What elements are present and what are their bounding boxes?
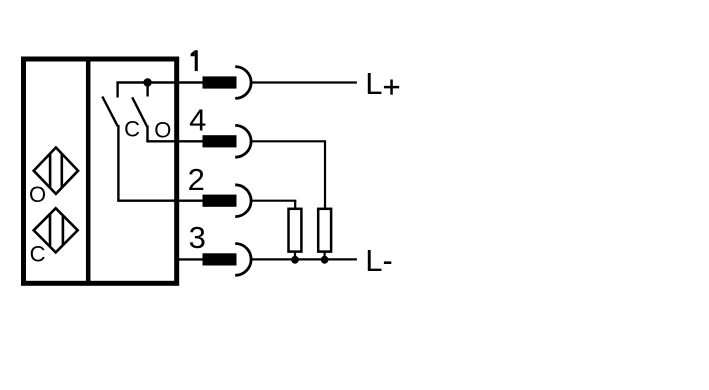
svg-text:L: L xyxy=(365,243,382,278)
svg-text:2: 2 xyxy=(188,162,205,197)
svg-text:O: O xyxy=(29,182,46,207)
svg-text:C: C xyxy=(124,117,140,142)
svg-text:4: 4 xyxy=(189,102,206,137)
svg-text:O: O xyxy=(154,117,171,142)
svg-text:C: C xyxy=(30,242,46,267)
svg-text:3: 3 xyxy=(189,220,206,255)
svg-text:L: L xyxy=(365,66,382,101)
